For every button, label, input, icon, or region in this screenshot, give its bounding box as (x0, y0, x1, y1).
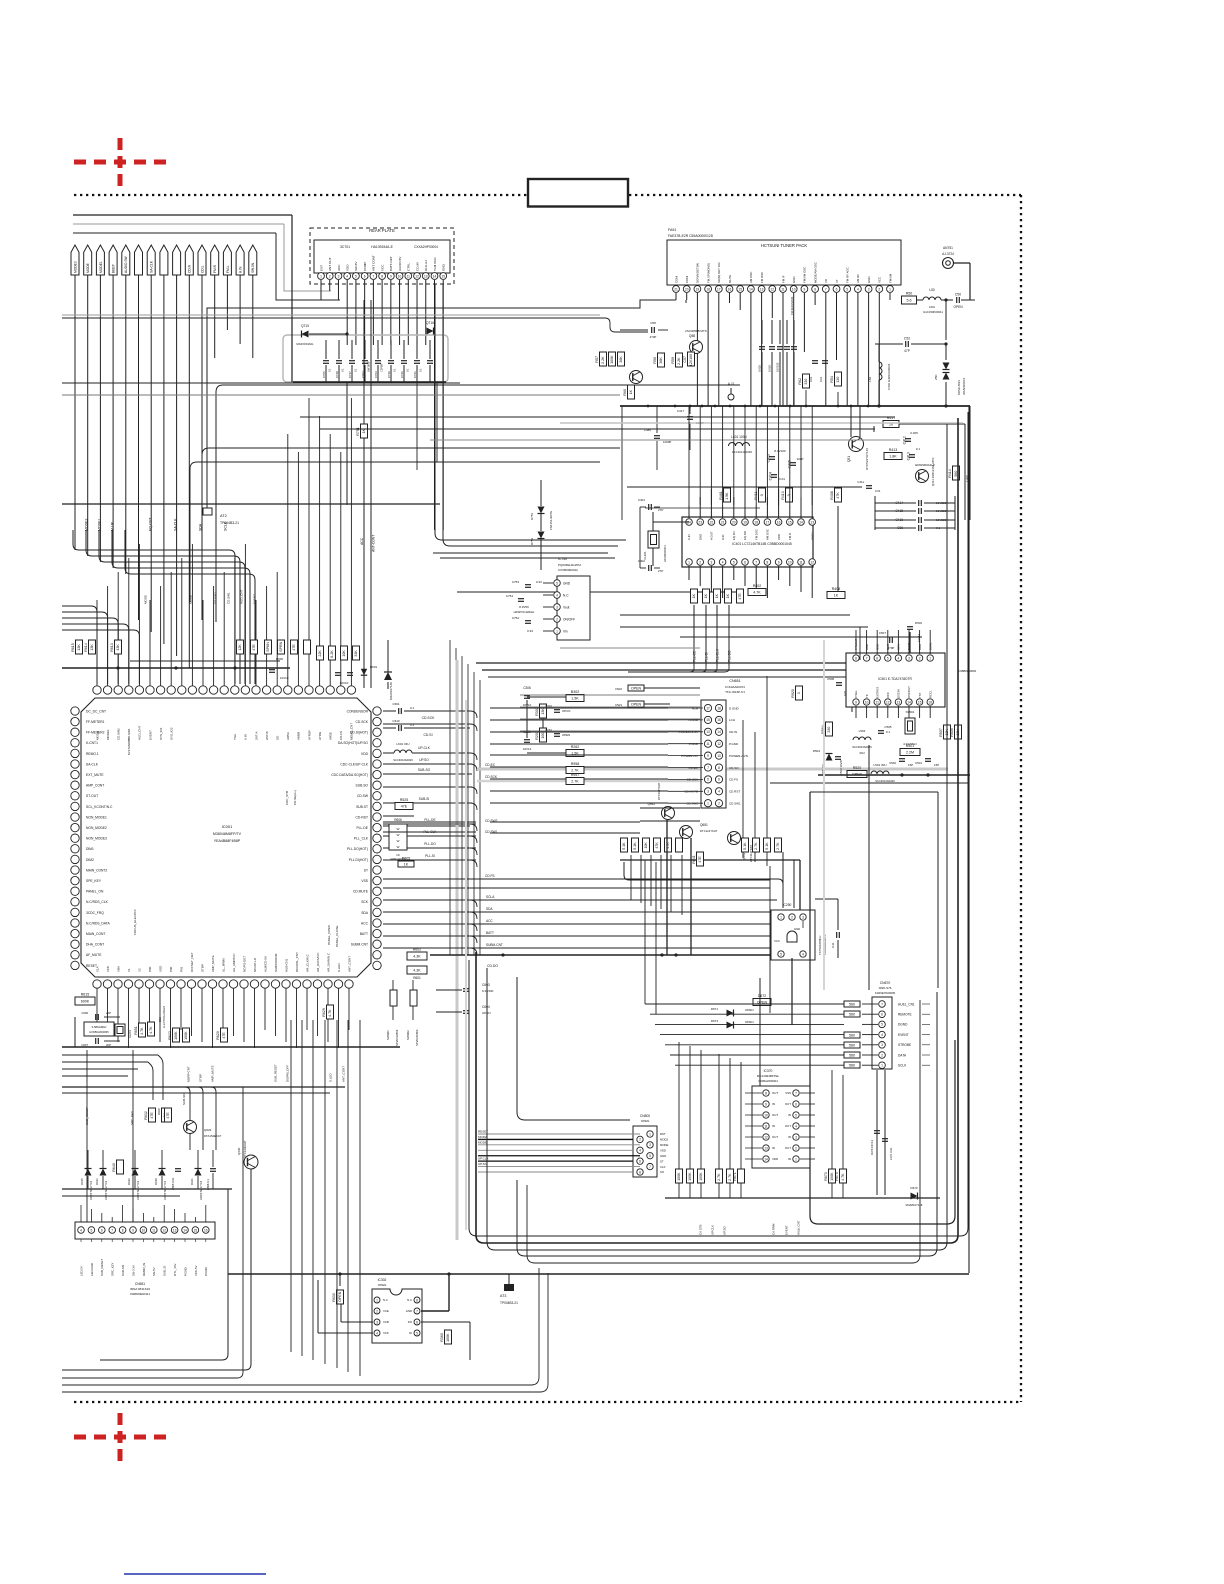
svg-text:2.2M: 2.2M (906, 751, 914, 755)
svg-text:F3F1E1U5A001: F3F1E1U5A001 (790, 296, 794, 315)
svg-text:IN: IN (788, 1157, 791, 1161)
svg-text:9: 9 (778, 560, 780, 564)
svg-text:HCTSUNI TUNER PACK: HCTSUNI TUNER PACK (761, 243, 808, 248)
svg-text:LCH: LCH (729, 718, 735, 722)
svg-text:GND1: GND1 (810, 532, 814, 540)
svg-text:SW.5V: SW.5V (354, 261, 358, 271)
svg-text:14: 14 (717, 730, 721, 734)
svg-text:2: 2 (881, 1053, 883, 1057)
svg-text:22: 22 (710, 520, 714, 524)
svg-text:GND: GND (442, 263, 446, 271)
svg-text:0.1: 0.1 (393, 368, 397, 372)
svg-text:C508: C508 (827, 677, 834, 681)
svg-text:R630: R630 (332, 1293, 336, 1302)
svg-text:CD.MUTE: CD.MUTE (353, 890, 369, 894)
svg-text:XL501: XL501 (906, 710, 915, 714)
svg-text:W: W (397, 833, 400, 837)
svg-text:OPEN: OPEN (631, 687, 642, 691)
svg-text:0.018: 0.018 (768, 365, 772, 372)
svg-text:SDA: SDA (361, 911, 369, 915)
svg-text:HA139154A-E: HA139154A-E (371, 245, 393, 249)
svg-text:47E: 47E (252, 644, 256, 651)
svg-text:R620: R620 (216, 1031, 220, 1040)
svg-text:P91: P91 (179, 966, 183, 972)
svg-text:47E: 47E (698, 856, 702, 863)
svg-text:VCC: VCC (774, 939, 780, 943)
svg-text:7: 7 (866, 656, 868, 660)
svg-text:1K: 1K (834, 594, 839, 598)
svg-text:2.2K: 2.2K (601, 356, 605, 364)
svg-text:33U: 33U (158, 1017, 162, 1022)
svg-text:1.5K: 1.5K (725, 492, 729, 500)
svg-text:R957: R957 (571, 773, 580, 777)
svg-text:SUBM.CNT: SUBM.CNT (351, 943, 368, 947)
svg-text:Q411 2SB1218A-MTK: Q411 2SB1218A-MTK (931, 457, 935, 486)
svg-text:10V220: 10V220 (776, 362, 780, 372)
svg-text:6-3V330: 6-3V330 (482, 989, 494, 993)
svg-text:VDD: VDD (660, 1148, 666, 1152)
svg-text:47E: 47E (222, 1032, 226, 1039)
svg-text:DCOPAL_CNT: DCOPAL_CNT (295, 952, 299, 972)
svg-text:CD-EC: CD-EC (485, 763, 496, 767)
svg-text:SN-3.3V: SN-3.3V (131, 1265, 135, 1276)
svg-text:17: 17 (706, 706, 710, 710)
svg-text:C50: C50 (955, 293, 961, 297)
svg-text:REMOTE: REMOTE (898, 1013, 912, 1017)
svg-text:HXXB6HX00065: HXXB6HX00065 (89, 1030, 109, 1034)
svg-text:A.J1: A.J1 (728, 382, 735, 386)
svg-text:11: 11 (876, 700, 880, 704)
svg-text:47K: 47K (836, 492, 840, 499)
svg-text:R408: R408 (830, 491, 834, 500)
svg-text:2SC3058B MTK: 2SC3058B MTK (685, 329, 707, 333)
svg-text:4: 4 (857, 287, 859, 291)
svg-text:1: 1 (320, 274, 322, 278)
svg-text:ELECTROLANGER: ELECTROLANGER (163, 1006, 166, 1028)
svg-text:AUDIO.SW: AUDIO.SW (124, 255, 128, 273)
svg-text:4.7K: 4.7K (149, 1026, 153, 1034)
svg-text:CD.FS: CD.FS (729, 778, 738, 782)
svg-text:C413: C413 (907, 452, 911, 460)
svg-text:ANT_CONT: ANT_CONT (347, 956, 351, 972)
svg-text:OUT: OUT (785, 1146, 791, 1150)
svg-text:EXTRES: EXTRES (875, 687, 879, 698)
svg-text:C404: C404 (769, 472, 773, 480)
svg-text:C58: C58 (650, 321, 656, 325)
svg-text:VDD: VDD (361, 752, 369, 756)
svg-text:D631: D631 (95, 1178, 99, 1185)
svg-text:OPEN: OPEN (338, 1291, 342, 1302)
svg-text:HR_DATA/N.C: HR_DATA/N.C (316, 952, 320, 972)
svg-text:IN: IN (772, 1102, 775, 1106)
svg-text:TC7S61080FU: TC7S61080FU (818, 936, 822, 955)
svg-text:13: 13 (810, 520, 814, 524)
svg-text:470P: 470P (650, 335, 657, 339)
svg-text:9: 9 (855, 700, 857, 704)
svg-text:47E: 47E (166, 1112, 170, 1119)
svg-text:DA.SO(HOT)/UP.SO: DA.SO(HOT)/UP.SO (338, 741, 369, 745)
svg-text:PLL.DI(HOT): PLL.DI(HOT) (349, 858, 368, 862)
svg-text:Q652: Q652 (648, 802, 656, 806)
svg-text:7: 7 (755, 560, 757, 564)
svg-text:0.025: 0.025 (910, 431, 918, 435)
svg-text:MODE/AM OSC: MODE/AM OSC (813, 262, 817, 283)
svg-text:CN651: CN651 (729, 679, 740, 683)
svg-text:R614: R614 (84, 643, 88, 652)
svg-text:SUB-SI: SUB-SI (419, 797, 430, 801)
svg-text:CD.SW1: CD.SW1 (729, 802, 741, 806)
svg-text:RCCL: RCCL (928, 690, 932, 698)
svg-text:13K: 13K (77, 644, 81, 651)
svg-text:1K: 1K (629, 389, 633, 394)
svg-text:2: 2 (791, 915, 793, 919)
svg-text:560: 560 (849, 1013, 855, 1017)
svg-text:CD.SW1: CD.SW1 (226, 592, 230, 604)
svg-text:FA91: FA91 (668, 228, 676, 232)
svg-text:3-58SAMHz: 3-58SAMHz (91, 1025, 107, 1029)
svg-text:D641: D641 (190, 1178, 194, 1185)
svg-text:5: 5 (780, 952, 782, 956)
svg-text:1K: 1K (704, 593, 708, 598)
svg-text:SA-CLK: SA-CLK (86, 762, 99, 766)
svg-text:PLL_CLK: PLL_CLK (354, 837, 369, 841)
svg-text:ACC: ACC (361, 921, 369, 925)
svg-text:OPEN: OPEN (562, 733, 570, 737)
svg-text:LED.5V: LED.5V (79, 1266, 83, 1276)
svg-text:10: 10 (764, 1113, 768, 1117)
svg-text:REMO.1: REMO.1 (86, 752, 99, 756)
svg-text:HR_CLK/N.C: HR_CLK/N.C (305, 953, 309, 972)
svg-text:4: 4 (718, 790, 720, 794)
svg-text:CD.SW2: CD.SW2 (117, 728, 121, 740)
svg-text:10: 10 (398, 274, 402, 278)
svg-text:279P: 279P (888, 646, 895, 650)
svg-text:2.7K: 2.7K (571, 769, 579, 773)
svg-text:8: 8 (122, 1228, 124, 1232)
svg-text:X-IN: X-IN (687, 534, 691, 540)
svg-text:OFFSET_DET: OFFSET_DET (190, 952, 194, 972)
svg-text:PANEL_ON: PANEL_ON (86, 890, 104, 894)
svg-text:D636: D636 (127, 1178, 131, 1185)
svg-text:4: 4 (556, 593, 558, 597)
svg-text:21: 21 (721, 520, 725, 524)
svg-text:AT2: AT2 (220, 514, 227, 518)
svg-text:C603: C603 (482, 983, 490, 987)
svg-text:SUB.ST: SUB.ST (356, 805, 368, 809)
svg-text:13: 13 (173, 1228, 177, 1232)
svg-text:0.1: 0.1 (419, 368, 423, 372)
svg-text:ANT-CONT: ANT-CONT (372, 535, 376, 552)
svg-text:R606: R606 (394, 818, 402, 822)
svg-text:6: 6 (718, 778, 720, 782)
svg-text:K-CNT1: K-CNT1 (86, 741, 98, 745)
svg-text:CD.SCK: CD.SCK (356, 720, 369, 724)
svg-text:C0JBA2000004: C0JBA2000004 (758, 1079, 778, 1083)
svg-text:15: 15 (738, 287, 742, 291)
svg-text:R632: R632 (144, 1111, 148, 1120)
svg-text:EXT: EXT (319, 265, 323, 271)
svg-text:6: 6 (744, 560, 746, 564)
svg-text:4.3K: 4.3K (413, 969, 421, 973)
svg-text:DTC114YKAT: DTC114YKAT (700, 829, 718, 833)
svg-text:6: 6 (795, 1102, 797, 1106)
svg-text:UP-CLK: UP-CLK (418, 746, 431, 750)
svg-text:R57: R57 (595, 356, 599, 363)
svg-text:560: 560 (849, 1003, 855, 1007)
svg-text:Q662: Q662 (742, 852, 746, 860)
svg-text:AR5E: AR5E (329, 732, 333, 740)
svg-text:18: 18 (754, 520, 758, 524)
svg-text:0.1: 0.1 (886, 730, 891, 734)
svg-text:D.GND: D.GND (729, 706, 740, 710)
svg-text:UP.CLK: UP.CLK (710, 1225, 714, 1235)
svg-text:0-560 G43R6JA0026: 0-560 G43R6JA0026 (887, 363, 891, 390)
svg-text:C754: C754 (506, 594, 514, 598)
svg-text:3: 3 (881, 1043, 883, 1047)
svg-text:6: 6 (836, 287, 838, 291)
svg-text:6: 6 (881, 1013, 883, 1017)
svg-text:8.3V56: 8.3V56 (519, 605, 529, 609)
svg-text:Vout: Vout (563, 605, 569, 609)
svg-text:VDD: VDD (158, 965, 162, 972)
svg-text:Q623: Q623 (204, 1128, 212, 1132)
svg-text:CXXB0000012: CXXB0000012 (558, 568, 578, 572)
svg-text:C503 16V47: C503 16V47 (839, 759, 843, 775)
svg-text:3: 3 (338, 274, 340, 278)
svg-text:A.OUT: A.OUT (710, 531, 714, 540)
svg-text:330: 330 (827, 727, 831, 733)
svg-text:P.GND: P.GND (729, 742, 739, 746)
svg-text:M-UP: M-UP (110, 521, 114, 531)
svg-text:IC401 LC72146TB14B C0BBD0: IC401 LC72146TB14B C0BBD0001045 (732, 542, 792, 546)
svg-text:SW902: SW902 (406, 1030, 410, 1040)
svg-text:0.1: 0.1 (328, 368, 332, 372)
svg-text:D601: D601 (370, 665, 378, 669)
svg-text:3: 3 (649, 1143, 651, 1147)
svg-text:C718: C718 (335, 371, 339, 378)
svg-text:P.GND: P.GND (183, 1267, 187, 1276)
svg-text:5.1K: 5.1K (633, 842, 637, 850)
svg-text:AMP_MUTE: AMP_MUTE (210, 1065, 214, 1082)
svg-text:R413: R413 (781, 491, 785, 500)
svg-text:C507: C507 (879, 631, 887, 635)
svg-text:R920: R920 (791, 689, 795, 698)
svg-text:SN-5V: SN-5V (152, 1267, 156, 1276)
svg-text:13: 13 (764, 1146, 768, 1150)
svg-text:10: 10 (865, 700, 869, 704)
svg-text:CN800: CN800 (640, 1114, 650, 1118)
svg-text:HR_SAIN/N.C: HR_SAIN/N.C (326, 952, 330, 972)
svg-text:4: 4 (802, 952, 804, 956)
svg-text:IC302: IC302 (378, 1278, 387, 1282)
svg-text:MUTE: MUTE (728, 275, 732, 283)
svg-text:SUB-SO: SUB-SO (418, 768, 431, 772)
svg-text:R751: R751 (356, 427, 360, 436)
svg-text:VBA: VBA (116, 966, 120, 972)
svg-text:OPEN: OPEN (641, 1119, 650, 1123)
svg-text:X1B: X1B (106, 966, 110, 972)
svg-text:UDZSTE-17 5.6: UDZSTE-17 5.6 (163, 1180, 167, 1200)
svg-text:15: 15 (706, 718, 710, 722)
svg-text:CD.SI: CD.SI (423, 733, 432, 737)
svg-text:10V10: 10V10 (340, 681, 349, 685)
svg-text:CA.RRM: CA.RRM (771, 1223, 775, 1235)
svg-text:14: 14 (183, 1228, 187, 1232)
svg-text:C501: C501 (915, 761, 922, 765)
svg-text:EVENT: EVENT (148, 730, 152, 740)
svg-text:R360: R360 (440, 1333, 444, 1342)
svg-text:7: 7 (416, 1309, 418, 1313)
svg-text:R54: R54 (830, 376, 834, 383)
svg-text:SUB_RESET: SUB_RESET (273, 1064, 277, 1082)
svg-text:J81A0000001: J81A0000001 (962, 377, 966, 395)
svg-text:NON_MODE3: NON_MODE3 (86, 837, 107, 841)
svg-text:DI: DI (409, 1331, 412, 1335)
svg-text:100K: 100K (610, 355, 614, 364)
svg-text:CLK: CLK (660, 1165, 666, 1169)
svg-text:CD.R: CD.R (188, 264, 192, 273)
svg-text:OUT: OUT (772, 1091, 778, 1095)
svg-text:M38048M8FP/TV: M38048M8FP/TV (213, 832, 242, 836)
svg-text:TKC-W16P-K1: TKC-W16P-K1 (725, 690, 745, 694)
svg-text:D370 16V13: D370 16V13 (870, 1140, 874, 1155)
svg-text:SUB_RESET: SUB_RESET (100, 1259, 104, 1276)
svg-text:SA-CLK: SA-CLK (150, 260, 154, 273)
svg-text:R602: R602 (413, 948, 422, 952)
svg-text:SA-CLK: SA-CLK (173, 518, 177, 531)
svg-text:27P: 27P (658, 569, 663, 573)
svg-text:D673: D673 (711, 1019, 719, 1023)
svg-text:9: 9 (707, 754, 709, 758)
svg-text:SO: SO (276, 735, 280, 740)
svg-text:0.1: 0.1 (341, 368, 345, 372)
svg-text:Q630: Q630 (237, 1147, 241, 1155)
svg-text:0-01: 0-01 (843, 690, 847, 696)
svg-text:PLL-SI: PLL-SI (425, 854, 435, 858)
svg-text:5: 5 (355, 274, 357, 278)
svg-text:0.33: 0.33 (527, 629, 533, 633)
svg-text:C411: C411 (857, 480, 864, 484)
svg-text:3: 3 (707, 790, 709, 794)
svg-text:SPKN: SPKN (266, 642, 270, 652)
svg-text:B302: B302 (571, 690, 579, 694)
svg-text:W: W (397, 845, 400, 849)
svg-text:12: 12 (771, 287, 775, 291)
svg-text:18: 18 (706, 287, 710, 291)
svg-text:CN651: CN651 (135, 1282, 145, 1286)
svg-text:R615: R615 (81, 993, 90, 997)
svg-text:NON_MODE2: NON_MODE2 (86, 826, 107, 830)
svg-text:12: 12 (886, 700, 890, 704)
svg-text:DW1: DW1 (615, 703, 622, 707)
svg-text:13K: 13K (541, 708, 545, 715)
svg-text:4: 4 (881, 1033, 883, 1037)
svg-text:CDC.DATA/DA.SO(HOT): CDC.DATA/DA.SO(HOT) (331, 773, 368, 777)
svg-text:C719: C719 (387, 371, 391, 378)
svg-text:DATA: DATA (898, 1053, 907, 1057)
svg-text:1: 1 (556, 629, 558, 633)
svg-text:K1K0AA00074: K1K0AA00074 (725, 685, 745, 689)
svg-text:FAE37B-E2R C55A0000012D: FAE37B-E2R C55A0000012D (668, 234, 714, 238)
svg-text:FM/AM: FM/AM (888, 273, 892, 283)
svg-text:7: 7 (825, 287, 827, 291)
svg-text:16: 16 (717, 718, 721, 722)
svg-text:14: 14 (749, 287, 753, 291)
svg-text:R59: R59 (671, 357, 675, 364)
svg-text:X1: X1 (127, 968, 131, 972)
svg-text:6: 6 (876, 656, 878, 660)
svg-text:XL601: XL601 (128, 1029, 132, 1038)
svg-text:1SR154-400TE: 1SR154-400TE (549, 511, 553, 530)
svg-text:AM OSC: AM OSC (749, 272, 753, 283)
svg-text:2: 2 (556, 617, 558, 621)
svg-text:12K: 12K (238, 644, 242, 651)
svg-text:SYS_IO2: SYS_IO2 (170, 727, 174, 740)
svg-text:3: 3 (795, 1135, 797, 1139)
svg-text:P.SEL: P.SEL (854, 690, 858, 698)
svg-text:560: 560 (849, 1064, 855, 1068)
svg-text:0.1: 0.1 (406, 368, 410, 372)
svg-text:X2: X2 (137, 968, 141, 972)
svg-text:R62: R62 (798, 378, 802, 385)
svg-text:CONDENSOR: CONDENSOR (347, 709, 369, 713)
svg-text:NON_MODE1: NON_MODE1 (86, 815, 107, 819)
svg-text:C306: C306 (523, 686, 531, 690)
svg-text:ACC: ACC (360, 537, 364, 545)
svg-text:FM RF AGC: FM RF AGC (846, 267, 850, 283)
svg-text:G1C150K00011: G1C150K00011 (923, 310, 943, 314)
svg-text:IMSA 9631S16: IMSA 9631S16 (130, 1287, 150, 1291)
svg-text:2: 2 (795, 1146, 797, 1150)
svg-text:EXT_MUTE: EXT_MUTE (86, 773, 104, 777)
svg-text:D609: D609 (276, 657, 283, 661)
svg-text:FM.IF: FM.IF (788, 532, 792, 540)
svg-text:PLL-DE: PLL-DE (424, 818, 435, 822)
svg-text:FM.R: FM.R (213, 264, 217, 273)
svg-text:15P: 15P (934, 763, 939, 767)
svg-text:GND: GND (698, 534, 702, 540)
svg-text:CD.DO: CD.DO (487, 964, 498, 968)
svg-text:2: 2 (878, 287, 880, 291)
svg-text:Q651: Q651 (700, 823, 708, 827)
svg-text:12: 12 (162, 1228, 166, 1232)
svg-text:14: 14 (433, 274, 437, 278)
svg-text:R408: R408 (832, 587, 841, 591)
svg-text:MAIN_CONT2: MAIN_CONT2 (86, 868, 107, 872)
svg-text:DSCIN: DSCIN (897, 689, 901, 698)
svg-text:GND: GND (867, 277, 871, 283)
svg-text:N.C: N.C (407, 1298, 412, 1302)
svg-text:D670: D670 (910, 1186, 918, 1190)
svg-text:ON/OFF: ON/OFF (563, 617, 575, 621)
svg-text:7: 7 (372, 274, 374, 278)
svg-text:1K: 1K (715, 593, 719, 598)
svg-text:FM.UP(MONO): FM.UP(MONO) (706, 263, 710, 283)
svg-text:1000P: 1000P (663, 440, 671, 444)
svg-text:SCLK: SCLK (898, 1064, 907, 1068)
svg-text:10V10: 10V10 (280, 676, 289, 680)
svg-text:4: 4 (639, 1149, 641, 1153)
svg-text:DTA154EKAT: DTA154EKAT (204, 1134, 221, 1138)
svg-text:MODE: MODE (478, 1140, 487, 1144)
svg-text:7: 7 (707, 766, 709, 770)
svg-text:K9MN99AD311: K9MN99AD311 (130, 1292, 150, 1296)
svg-text:S.LED: S.LED (337, 962, 341, 972)
svg-text:OUT: OUT (785, 1124, 791, 1128)
svg-text:5: 5 (881, 1023, 883, 1027)
svg-text:UDZSTE-17 5.6: UDZSTE-17 5.6 (136, 1180, 140, 1200)
svg-text:R613: R613 (110, 643, 114, 652)
